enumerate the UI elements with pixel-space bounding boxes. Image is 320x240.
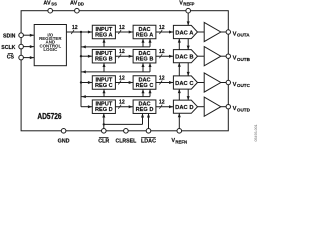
wire VREFN chain to DAC C: [178, 89, 181, 100]
svg-text:OUTB: OUTB: [237, 57, 251, 62]
wire SCLK to I/O register: [23, 45, 34, 48]
pin LDAC: [141, 129, 156, 145]
wire CS to I/O register: [23, 56, 34, 59]
svg-text:12: 12: [159, 75, 165, 81]
svg-text:12: 12: [119, 100, 125, 106]
label figure number 05493-001: [254, 124, 258, 141]
input register B: [92, 49, 115, 63]
wire VREFN to DAC D: [178, 113, 181, 128]
wire SDIN to I/O register: [23, 34, 34, 37]
wire 12-bit bus I/O register to input reg A: [66, 25, 92, 34]
wire VREFP chain to DAC B: [187, 39, 190, 50]
wire 12-bit input reg B to DAC reg B: [115, 49, 133, 58]
wire amp A to VOUTA pin: [221, 31, 226, 33]
DAC A: [173, 25, 197, 38]
svg-text:12: 12: [159, 100, 165, 106]
wire bus to input reg B: [81, 55, 92, 58]
node bus junction row B: [80, 55, 82, 57]
svg-text:REG D: REG D: [95, 107, 113, 113]
op-amp output buffer C: [204, 73, 221, 92]
DAC register B: [133, 49, 156, 63]
op-amp output buffer B: [204, 47, 221, 66]
node bus junction row C: [80, 81, 82, 83]
svg-text:CLR: CLR: [98, 138, 109, 144]
DAC register D: [133, 100, 156, 114]
wire vertical data bus: [80, 32, 82, 107]
pin GND: [58, 129, 70, 145]
wire VREFP chain to DAC D: [187, 89, 190, 100]
node bus junction row A: [80, 31, 82, 33]
svg-text:DAC D: DAC D: [175, 105, 193, 111]
wire DAC C to amp C: [198, 82, 205, 84]
pin SCLK: [1, 44, 23, 51]
pin AVSS: [43, 1, 57, 14]
pin SDIN: [3, 33, 23, 40]
svg-text:CLRSEL: CLRSEL: [116, 138, 138, 144]
chip outline AD5726: [21, 11, 228, 131]
wire control line below row C: [82, 89, 152, 98]
svg-text:DAC B: DAC B: [175, 55, 193, 61]
pin VOUTC: [226, 80, 250, 88]
svg-text:REG B: REG B: [136, 57, 154, 63]
svg-text:12: 12: [159, 25, 165, 31]
svg-text:12: 12: [119, 49, 125, 55]
wire DAC A to amp A: [198, 31, 205, 33]
svg-text:OUTD: OUTD: [237, 107, 251, 112]
DAC register C: [133, 76, 156, 90]
wire DAC D to amp D: [198, 106, 205, 108]
wire bus to input reg C: [81, 81, 92, 84]
op-amp output buffer A: [204, 22, 221, 41]
pin VREFN: [171, 129, 187, 145]
svg-text:GND: GND: [58, 138, 70, 144]
pin CS: [7, 54, 24, 61]
wire amp D to VOUTD pin: [221, 106, 226, 108]
wire VREFN chain to DAC B: [178, 63, 181, 76]
svg-text:12: 12: [72, 25, 78, 31]
pin CLRSEL: [116, 129, 138, 145]
wire 12-bit input reg A to DAC reg A: [115, 25, 133, 34]
pin VOUTB: [226, 54, 250, 62]
DAC C: [173, 76, 197, 89]
svg-text:AV: AV: [70, 1, 78, 7]
svg-text:AD5726: AD5726: [37, 112, 62, 121]
svg-text:REG C: REG C: [136, 83, 154, 89]
svg-text:SDIN: SDIN: [3, 33, 16, 39]
wire 12-bit DAC reg D to DAC D: [156, 100, 174, 109]
DAC B: [173, 50, 197, 63]
wire DAC B to amp B: [198, 55, 205, 57]
svg-text:REG C: REG C: [95, 83, 113, 89]
svg-text:REG B: REG B: [95, 57, 113, 63]
wire 12-bit DAC reg A to DAC A: [156, 25, 174, 34]
svg-text:REFP: REFP: [183, 2, 194, 7]
svg-text:REG A: REG A: [136, 32, 154, 38]
pin VREFP: [179, 1, 194, 14]
input register A: [92, 25, 115, 39]
svg-text:DD: DD: [78, 2, 84, 7]
svg-text:DAC C: DAC C: [175, 81, 194, 87]
wire 12-bit DAC reg C to DAC C: [156, 75, 174, 84]
pin CLR: [98, 129, 109, 145]
svg-text:SS: SS: [51, 2, 57, 7]
input register C: [92, 76, 115, 90]
svg-text:SCLK: SCLK: [1, 45, 15, 51]
svg-text:REG A: REG A: [95, 32, 113, 38]
svg-text:OUTA: OUTA: [237, 33, 250, 38]
svg-text:LDAC: LDAC: [141, 138, 156, 144]
svg-text:DAC A: DAC A: [175, 31, 194, 37]
wire amp B to VOUTB pin: [221, 55, 226, 57]
svg-text:REFN: REFN: [175, 139, 187, 144]
wire LDAC to DAC reg D: [147, 113, 150, 128]
svg-text:OUTC: OUTC: [237, 83, 251, 88]
svg-text:12: 12: [159, 49, 165, 55]
pin VOUTD: [226, 105, 250, 113]
svg-text:12: 12: [119, 25, 125, 31]
DAC D: [173, 100, 197, 113]
wire control line below row A: [82, 39, 152, 49]
wire control line below row B: [82, 63, 152, 74]
wire VREFP chain to DAC C: [187, 63, 190, 76]
pin AVDD: [70, 1, 84, 14]
wire 12-bit input reg D to DAC reg D: [115, 100, 133, 109]
wire CLR branch to DAC reg D: [104, 113, 144, 124]
svg-text:AV: AV: [43, 1, 51, 7]
wire amp C to VOUTC pin: [221, 82, 226, 84]
svg-text:REG D: REG D: [136, 107, 154, 113]
wire VREFN chain to DAC A: [178, 38, 181, 49]
DAC register A: [133, 25, 156, 39]
wire VREFP to DAC A: [187, 13, 190, 26]
svg-text:CS: CS: [7, 55, 15, 61]
op-amp output buffer D: [204, 97, 221, 116]
input register D: [92, 100, 115, 114]
I/O register and control logic block: [34, 25, 66, 66]
svg-text:LOGIC: LOGIC: [43, 47, 58, 52]
pin VOUTA: [226, 30, 250, 38]
svg-text:12: 12: [119, 75, 125, 81]
wire 12-bit input reg C to DAC reg C: [115, 75, 133, 84]
wire CLR to input reg D: [102, 113, 105, 128]
label AD5726: [37, 112, 62, 121]
svg-text:05493-001: 05493-001: [254, 124, 258, 141]
wire bus to input reg D: [81, 105, 92, 108]
wire 12-bit DAC reg B to DAC B: [156, 49, 174, 58]
